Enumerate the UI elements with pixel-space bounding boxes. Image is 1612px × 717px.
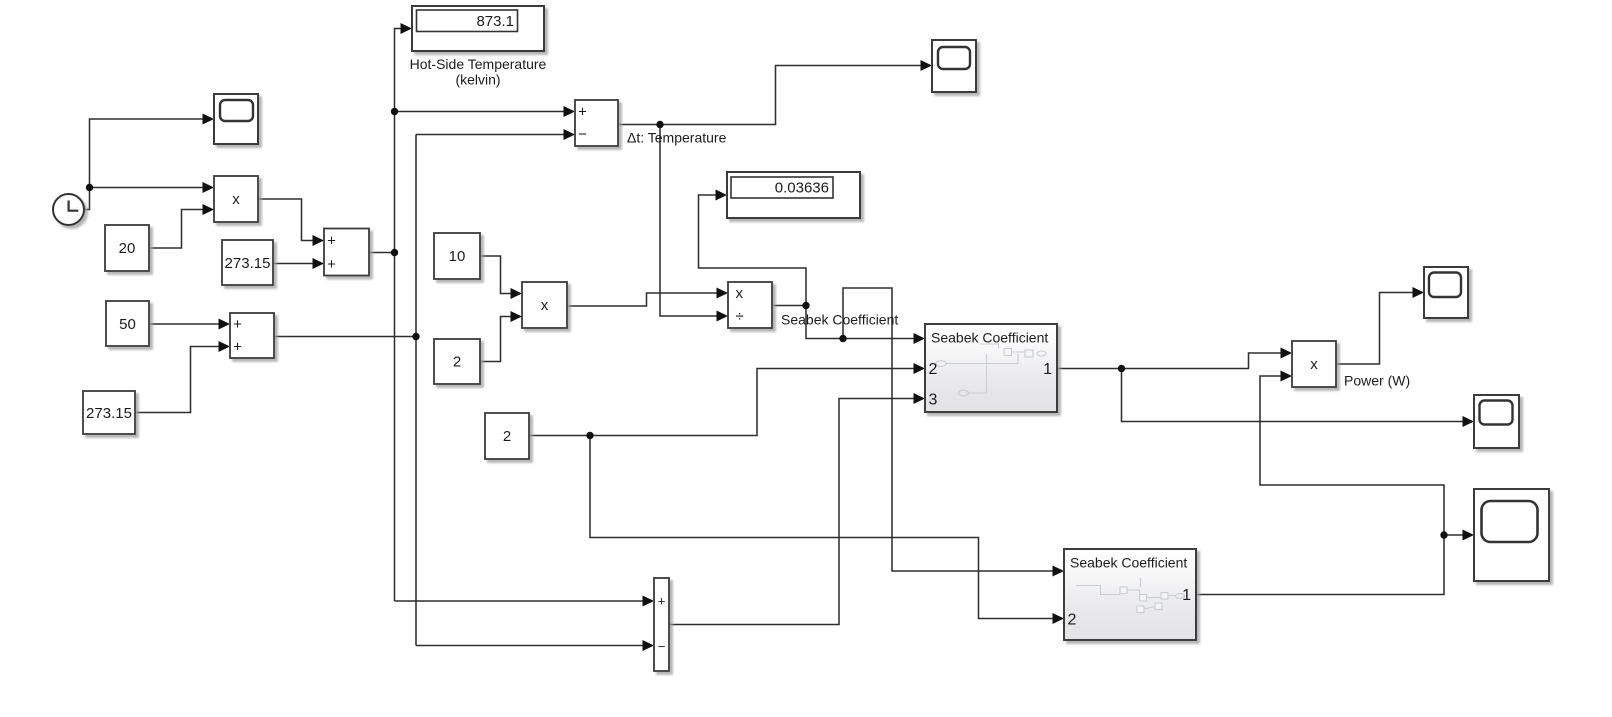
svg-text:Hot-Side Temperature: Hot-Side Temperature — [410, 56, 547, 72]
svg-text:+: + — [327, 233, 336, 250]
svg-text:2: 2 — [929, 361, 938, 378]
svg-text:2: 2 — [453, 354, 461, 371]
svg-text:−: − — [658, 639, 666, 654]
svg-text:873.1: 873.1 — [476, 13, 514, 30]
svg-text:2: 2 — [1068, 612, 1077, 629]
svg-text:+: + — [233, 316, 242, 333]
svg-text:x: x — [736, 285, 744, 302]
svg-text:10: 10 — [449, 248, 466, 265]
svg-text:20: 20 — [119, 240, 136, 257]
svg-text:+: + — [327, 256, 336, 273]
svg-text:1: 1 — [1182, 587, 1191, 604]
svg-text:÷: ÷ — [736, 308, 744, 325]
svg-text:Seabek Coefficient: Seabek Coefficient — [1070, 555, 1187, 571]
svg-text:−: − — [578, 126, 587, 143]
svg-text:x: x — [232, 191, 240, 208]
svg-text:Seabek Coefficient: Seabek Coefficient — [781, 312, 898, 328]
svg-text:0.03636: 0.03636 — [775, 180, 829, 197]
svg-text:50: 50 — [119, 316, 136, 333]
svg-text:2: 2 — [503, 428, 511, 445]
svg-text:Seabek Coefficient: Seabek Coefficient — [931, 330, 1048, 346]
svg-text:+: + — [578, 104, 587, 121]
svg-text:x: x — [1310, 356, 1318, 373]
svg-text:(kelvin): (kelvin) — [455, 72, 500, 88]
svg-text:1: 1 — [1043, 361, 1052, 378]
svg-text:Power (W): Power (W) — [1344, 373, 1410, 389]
svg-text:x: x — [541, 297, 549, 314]
svg-text:+: + — [233, 339, 242, 356]
svg-text:273.15: 273.15 — [225, 255, 271, 272]
svg-text:3: 3 — [929, 392, 938, 409]
svg-text:273.15: 273.15 — [86, 405, 132, 422]
svg-text:+: + — [658, 594, 666, 609]
svg-text:Δt: Temperature: Δt: Temperature — [627, 130, 727, 146]
